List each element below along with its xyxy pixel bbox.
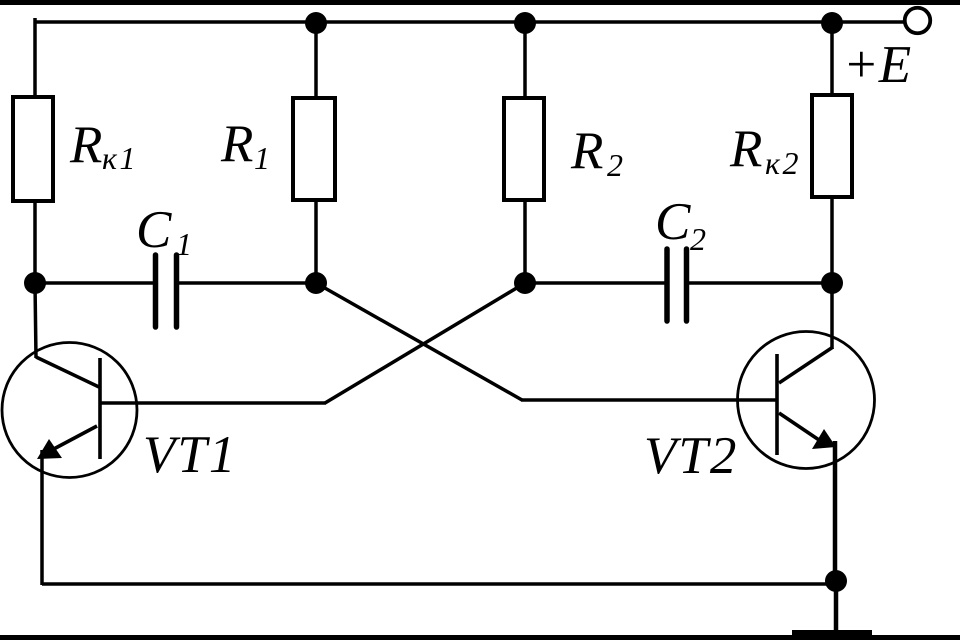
node A junction dot [24,272,46,294]
resistor Rk1 [13,97,53,201]
resistor R1 [293,98,335,200]
svg-text:1: 1 [176,226,192,262]
wire: VT2 base lead [521,398,776,402]
svg-text:к1: к1 [102,140,138,176]
svg-text:VT1: VT1 [143,426,237,484]
wire: R1 top lead [314,22,318,98]
node D junction dot [821,272,843,294]
wire: R2 bottom lead to node C [523,200,527,285]
resistor Rk2 [812,95,852,197]
node: rail junction above R2 [514,12,536,34]
wire: VT1 emitter drop [40,450,44,585]
transistor VT2 [738,332,875,469]
capacitor C2 plates [664,249,670,321]
wire: Rk2 bottom lead to node D [830,197,834,285]
svg-text:R: R [570,122,603,180]
wire: ground riser [834,581,839,634]
wire: cross-coupling node C to VT1 base [325,283,525,403]
wire: VT2 collector lead [830,283,834,349]
wire: bottom return [42,582,836,586]
terminal +E [905,8,931,34]
node: rail junction above Rk2 [821,12,843,34]
wire: Rk2 top lead [830,22,834,95]
wire: R2 top lead [523,22,527,98]
capacitor C2 left lead [525,281,665,285]
svg-text:R: R [220,115,253,173]
wire: Rk1 bottom lead to node A [33,201,37,285]
wire: VT1 base lead [101,401,326,405]
svg-text:2: 2 [690,221,706,257]
node: rail junction above R1 [305,12,327,34]
svg-text:1: 1 [254,140,270,176]
svg-text:R: R [69,116,102,174]
svg-text:VT2: VT2 [644,427,738,485]
svg-text:к2: к2 [765,145,801,181]
node C junction dot [514,272,536,294]
svg-text:R: R [729,120,762,178]
svg-text:C: C [655,193,691,251]
svg-text:2: 2 [607,147,623,183]
transistor VT1 [2,343,137,478]
wire: Rk1 top lead [33,18,37,97]
resistor R2 [504,98,544,200]
capacitor C1 plates [153,255,159,327]
capacitor C1 right lead [179,281,316,285]
wire: R1 bottom lead to node B [314,200,318,285]
svg-text:C: C [136,201,172,259]
node E junction dot at emitter/ground [825,570,847,592]
capacitor C2 right lead [689,281,832,285]
svg-text:+E: +E [843,36,911,94]
capacitor C1 left lead [35,281,153,285]
wire: VT1 collector lead [35,283,36,358]
node B junction dot [305,272,327,294]
ground [792,630,872,640]
wire: cross-coupling node B to VT2 base [316,283,522,400]
wire: VT2 emitter drop [833,441,838,583]
wire: +E supply rail [35,20,905,24]
